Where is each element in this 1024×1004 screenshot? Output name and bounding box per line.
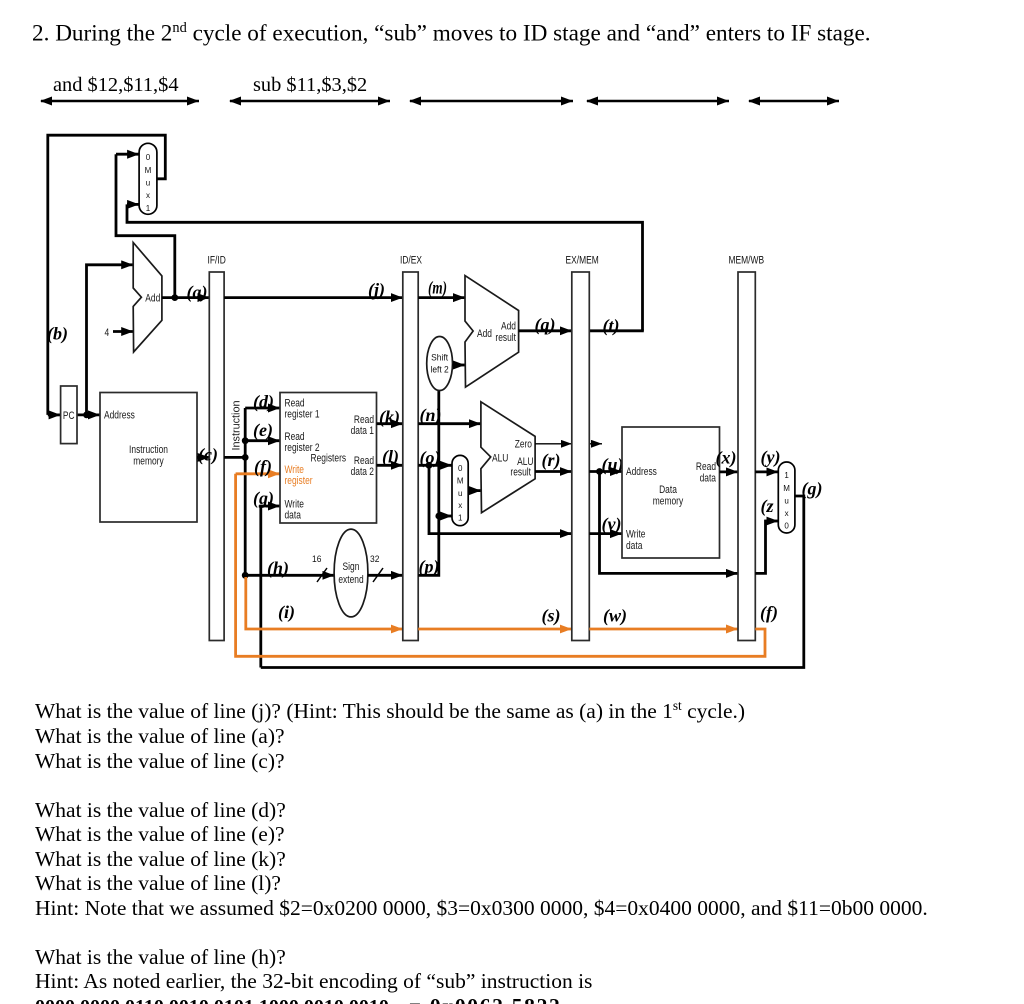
label (x) <box>716 448 737 469</box>
svg-text:(v): (v) <box>602 514 622 535</box>
svg-text:(r): (r) <box>542 450 561 471</box>
svg-text:u: u <box>784 497 788 506</box>
registers box <box>280 393 377 524</box>
svg-text:data: data <box>626 540 642 552</box>
svg-text:data: data <box>700 473 716 485</box>
svg-text:MEM/WB: MEM/WB <box>729 255 765 267</box>
svg-text:(u): (u) <box>602 455 624 476</box>
svg-text:(n): (n) <box>420 405 442 426</box>
title line <box>32 17 871 46</box>
svg-text:(w): (w) <box>603 606 627 627</box>
svg-text:M: M <box>145 166 152 175</box>
svg-text:(h): (h) <box>267 558 289 579</box>
label (u) <box>602 455 624 476</box>
svg-text:1: 1 <box>458 514 463 523</box>
wire: Zero flag stub out of EX/MEM <box>589 443 602 445</box>
svg-text:ALU: ALU <box>492 453 508 465</box>
svg-text:(a): (a) <box>187 282 208 303</box>
svg-text:(f): (f) <box>254 457 272 478</box>
label (p) <box>419 557 440 578</box>
svg-text:(j): (j) <box>368 280 385 301</box>
label (g) <box>253 488 274 509</box>
mux M1 (PC source mux) <box>139 143 157 214</box>
svg-text:Instruction: Instruction <box>129 444 168 456</box>
svg-text:x: x <box>785 509 789 518</box>
label (f) <box>254 457 272 478</box>
wire (t): EX/MEM branch target out <box>589 329 644 332</box>
label (d) <box>253 392 274 413</box>
pipeline register ID/EX <box>400 255 422 641</box>
label (w) <box>603 606 627 627</box>
label (g) right <box>802 479 823 500</box>
svg-text:x: x <box>146 191 150 200</box>
svg-text:0: 0 <box>146 153 151 162</box>
svg-text:register 1: register 1 <box>285 409 320 421</box>
svg-text:(o): (o) <box>420 448 441 469</box>
svg-text:(d): (d) <box>253 392 274 413</box>
svg-text:Shift: Shift <box>431 353 448 364</box>
sign extend <box>334 529 368 617</box>
wire: mux to ALU lower input <box>468 489 481 492</box>
svg-text:(s): (s) <box>542 606 561 627</box>
svg-text:Registers: Registers <box>311 453 347 465</box>
label Instruction (vertical) <box>231 401 243 451</box>
timeline arrow 5 <box>749 100 839 103</box>
label (z <box>761 496 774 517</box>
wire (n): read data 1 to ALU <box>418 422 481 425</box>
wire (f): write register (orange) <box>236 472 280 475</box>
svg-text:(e): (e) <box>253 420 273 441</box>
svg-text:ID/EX: ID/EX <box>400 255 422 267</box>
ALU U1 <box>481 402 535 513</box>
wire (a): Add output into IF/ID <box>162 296 209 299</box>
label (v) <box>602 514 622 535</box>
wire: PC+4 up to PC mux input 0 <box>116 154 175 297</box>
svg-text:extend: extend <box>338 574 363 586</box>
wire (y): memory read data to WB mux input 1 <box>755 470 778 473</box>
svg-text:(g): (g) <box>802 479 823 500</box>
label (i) <box>278 602 295 623</box>
wire (l): read data 2 into ID/EX <box>377 464 403 467</box>
label (y) <box>761 447 781 468</box>
label (a) <box>187 282 208 303</box>
wire (u): ALU result to data memory address <box>589 468 622 475</box>
svg-text:result: result <box>495 332 516 344</box>
wire: branch target feedback to PC mux input 1 <box>127 204 643 330</box>
svg-text:u: u <box>458 489 462 498</box>
wire: shift left 2 to branch adder <box>453 364 466 367</box>
mux M3 (write back mux) <box>778 462 795 533</box>
svg-text:and $12,$11,$4: and $12,$11,$4 <box>53 74 179 96</box>
svg-text:Add: Add <box>145 293 160 305</box>
svg-text:(t): (t) <box>603 316 620 337</box>
svg-text:1: 1 <box>784 471 789 480</box>
label (t) <box>603 316 620 337</box>
wire (e): read register 2 <box>245 439 280 442</box>
wire (g): write back data loop to register file <box>261 496 804 668</box>
svg-text:EX/MEM: EX/MEM <box>566 255 599 267</box>
wire (j): IF/ID to ID/EX (PC+4) <box>224 296 403 299</box>
timeline arrow 3 <box>410 100 573 103</box>
wire (h): immediate to sign extend <box>245 554 334 582</box>
svg-text:Data: Data <box>659 484 677 496</box>
wire (p): sign extend output into ID/EX <box>368 554 403 582</box>
svg-text:0: 0 <box>458 464 463 473</box>
svg-text:Instruction: Instruction <box>231 401 243 451</box>
mux M2 (ALU source mux) <box>452 455 468 525</box>
PC register <box>61 386 77 444</box>
svg-text:(m): (m) <box>428 278 447 299</box>
label (h) <box>267 558 289 579</box>
svg-text:(f): (f) <box>760 603 778 624</box>
svg-text:Address: Address <box>104 410 135 422</box>
svg-text:0: 0 <box>784 522 789 531</box>
label (l) <box>382 447 399 468</box>
wire (z): ALU result to WB mux input 0 <box>755 521 778 573</box>
instruction span label "and $12,$11,$4" <box>53 74 179 96</box>
svg-text:1: 1 <box>146 204 151 213</box>
svg-text:memory: memory <box>133 456 164 468</box>
svg-text:Sign: Sign <box>343 561 360 573</box>
svg-text:data 1: data 1 <box>351 425 374 437</box>
wire: Zero flag into EX/MEM <box>535 443 572 445</box>
svg-text:(b): (b) <box>47 324 68 345</box>
label (q) <box>535 315 556 336</box>
svg-text:Write: Write <box>626 529 646 541</box>
wire: ALU result around to MEM/WB <box>600 472 739 574</box>
data memory box <box>622 427 720 558</box>
wire: PC mux output to PC (top loop) <box>48 135 166 415</box>
wire (q): branch target into EX/MEM <box>519 329 572 332</box>
svg-text:(c): (c) <box>198 445 218 466</box>
label (o) <box>420 448 441 469</box>
adder Add (branch target) <box>465 276 519 388</box>
adder Add (PC+4) <box>133 243 162 353</box>
wire: instruction bus from IF/ID <box>224 408 249 579</box>
svg-text:(p): (p) <box>419 557 440 578</box>
svg-text:result: result <box>510 467 531 479</box>
wire (d): read register 1 <box>245 407 280 410</box>
svg-text:Address: Address <box>626 466 657 478</box>
svg-text:Zero: Zero <box>515 439 532 451</box>
timeline arrow 4 <box>587 100 729 103</box>
shift left 2 <box>427 337 453 391</box>
wire: PC value up to Add <box>87 265 134 415</box>
label (f) right <box>760 603 778 624</box>
label (b) <box>47 324 68 345</box>
node: Add output junction <box>171 294 178 301</box>
instruction span label "sub $11,$3,$2" <box>253 74 367 96</box>
svg-text:(k): (k) <box>379 407 400 428</box>
orange wire (w): write register number EX/MEM to MEM/WB <box>589 628 738 631</box>
svg-text:M: M <box>457 477 464 486</box>
svg-text:(y): (y) <box>761 447 781 468</box>
label (r) <box>542 450 561 471</box>
instruction memory box <box>100 393 197 523</box>
wire (m): PC+4 to branch adder <box>418 296 465 299</box>
svg-text:sub $11,$3,$2: sub $11,$3,$2 <box>253 74 367 96</box>
constant 4 <box>105 327 134 339</box>
wire: PC to instruction memory <box>77 412 100 419</box>
svg-text:32: 32 <box>370 554 379 565</box>
label (c) <box>198 445 218 466</box>
svg-text:data 2: data 2 <box>351 466 374 478</box>
timeline arrow 2 <box>230 100 390 103</box>
label (k) <box>379 407 400 428</box>
label (s) <box>542 606 561 627</box>
svg-text:left 2: left 2 <box>430 365 448 376</box>
pipeline register IF/ID <box>208 255 226 641</box>
svg-text:(l): (l) <box>382 447 399 468</box>
orange wire (f): write register number loop to register file <box>236 474 765 657</box>
timeline arrow 1 <box>41 100 199 103</box>
orange wire (i): write register number into ID/EX <box>246 577 403 629</box>
wire (v): write data to data memory <box>589 532 622 535</box>
question text block <box>35 694 928 1004</box>
wire (o): read data 2 to ALU mux and EX/MEM write data <box>418 462 572 534</box>
svg-text:x: x <box>458 501 462 510</box>
svg-text:register: register <box>285 475 313 487</box>
svg-text:(z: (z <box>761 496 774 517</box>
svg-text:(i): (i) <box>278 602 295 623</box>
svg-text:Add: Add <box>477 328 492 340</box>
wire (k): read data 1 into ID/EX <box>377 422 403 425</box>
label (m) <box>428 278 447 299</box>
svg-text:(x): (x) <box>716 448 737 469</box>
svg-text:u: u <box>146 179 150 188</box>
wire: immediate riser to shift-left-2 and ALU mux <box>418 390 452 575</box>
svg-text:PC: PC <box>63 410 75 422</box>
orange wire (s): write register number ID/EX to EX/MEM <box>418 628 572 631</box>
label (j) <box>368 280 385 301</box>
svg-text:memory: memory <box>653 496 684 508</box>
svg-text:Add: Add <box>501 321 516 333</box>
wire (r): ALU result into EX/MEM <box>535 470 572 473</box>
svg-text:(g): (g) <box>253 488 274 509</box>
svg-text:4: 4 <box>105 327 110 339</box>
pipeline register EX/MEM <box>566 255 599 641</box>
svg-text:16: 16 <box>312 554 321 565</box>
svg-text:IF/ID: IF/ID <box>208 255 226 267</box>
pipeline register MEM/WB <box>729 255 765 641</box>
label (n) <box>420 405 442 426</box>
svg-text:(q): (q) <box>535 315 556 336</box>
label (e) <box>253 420 273 441</box>
wire (c): instruction memory output into IF/ID <box>197 456 209 459</box>
svg-text:Read: Read <box>696 461 716 473</box>
wire (g): write data input <box>261 506 280 668</box>
svg-text:data: data <box>285 510 301 522</box>
svg-text:M: M <box>783 484 790 493</box>
wire (x): read data into MEM/WB <box>720 470 739 473</box>
